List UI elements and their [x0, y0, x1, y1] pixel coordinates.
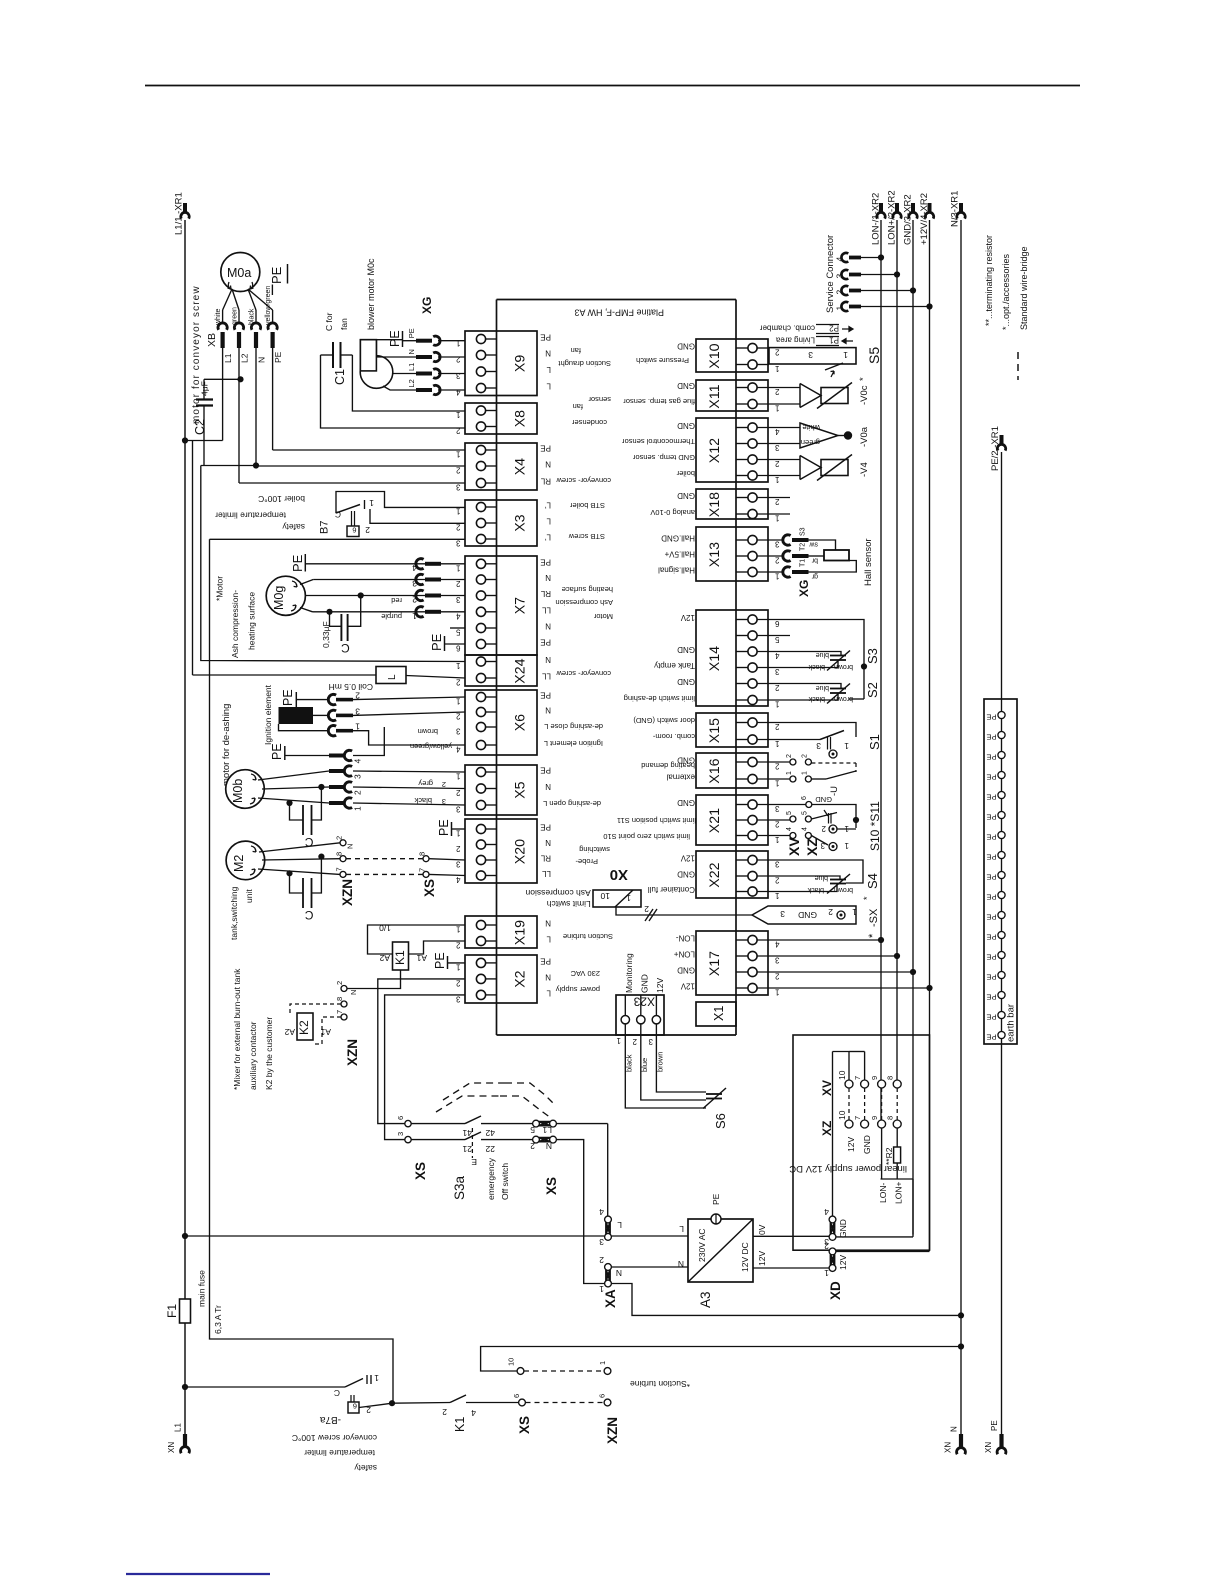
svg-text:0V: 0V	[757, 1224, 767, 1235]
svg-text:black: black	[807, 886, 824, 893]
svg-text:blue: blue	[816, 651, 829, 658]
svg-text:T2: T2	[800, 543, 807, 551]
wire X2.N to XS-6	[378, 979, 465, 1124]
svg-text:3: 3	[599, 1237, 604, 1247]
svg-text:XN: XN	[984, 1442, 993, 1453]
svg-text:4: 4	[775, 940, 780, 949]
svg-text:1: 1	[786, 771, 793, 775]
svg-text:Thermocontrol sensor: Thermocontrol sensor	[622, 437, 695, 446]
svg-text:XB: XB	[206, 333, 218, 347]
connector -SX* arrow	[752, 906, 880, 938]
svg-text:GND: GND	[677, 798, 695, 807]
svg-text:1: 1	[775, 891, 780, 900]
connector X11	[623, 380, 780, 413]
svg-text:brown: brown	[834, 695, 853, 702]
svg-text:10: 10	[600, 891, 610, 901]
svg-text:1: 1	[775, 475, 780, 484]
svg-text:4: 4	[456, 875, 461, 884]
svg-text:GND: GND	[838, 1219, 848, 1238]
svg-text:XZN: XZN	[605, 1417, 620, 1444]
junction B7a output	[389, 1400, 395, 1406]
svg-text:10: 10	[507, 1358, 516, 1366]
svg-text:XN: XN	[944, 1442, 953, 1453]
svg-text:S1: S1	[867, 734, 882, 750]
svg-text:*Motor: *Motor	[215, 576, 225, 601]
svg-text:PE: PE	[986, 733, 996, 742]
svg-text:PE: PE	[986, 753, 996, 762]
svg-text:S6: S6	[713, 1113, 728, 1129]
svg-text:Suction draught: Suction draught	[558, 359, 611, 368]
svg-text:2: 2	[442, 780, 446, 789]
limit switches S10 S11 cluster (XV/XZ)	[757, 795, 882, 856]
terminal N/3-XR1 and N line	[950, 191, 966, 1434]
svg-text:2: 2	[456, 466, 461, 475]
svg-text:12V: 12V	[757, 1251, 767, 1266]
wire X3.3 STB screw	[210, 538, 466, 540]
svg-text:PE: PE	[540, 956, 551, 965]
plug XZ row (dashed mating)	[820, 1088, 901, 1154]
svg-text:230 VAC: 230 VAC	[570, 969, 600, 978]
svg-text:door switch (GND): door switch (GND)	[633, 716, 695, 725]
svg-text:boiler 100°C: boiler 100°C	[258, 494, 305, 504]
plug XZN contacts (mixer K2)	[335, 981, 360, 1066]
svg-text:1: 1	[456, 962, 461, 971]
svg-text:Platine FMP-F, HW A3: Platine FMP-F, HW A3	[574, 308, 664, 318]
svg-text:X10: X10	[707, 343, 723, 368]
svg-text:2: 2	[775, 497, 780, 506]
svg-text:1: 1	[775, 514, 780, 523]
linear power supply 12V block	[789, 1035, 929, 1250]
plug XZN / XS contacts (M2 to X20)	[258, 836, 465, 906]
svg-text:blower motor M0c: blower motor M0c	[366, 258, 376, 330]
svg-text:black: black	[624, 1054, 633, 1072]
svg-text:M0g: M0g	[272, 586, 286, 610]
svg-text:PE: PE	[986, 933, 996, 942]
svg-text:5: 5	[530, 1125, 535, 1135]
svg-text:black: black	[808, 663, 825, 670]
PE symbol at X20.1	[437, 819, 465, 836]
svg-text:4: 4	[471, 1408, 476, 1418]
switch K1 contact (bottom)	[392, 1395, 519, 1432]
svg-text:black: black	[414, 796, 432, 805]
svg-text:S4: S4	[865, 873, 880, 889]
svg-text:2: 2	[456, 678, 461, 687]
svg-text:sensor: sensor	[588, 395, 611, 404]
svg-text:3: 3	[456, 595, 461, 604]
svg-text:7: 7	[335, 867, 344, 871]
svg-text:X19: X19	[513, 920, 529, 945]
svg-text:2: 2	[802, 754, 809, 758]
svg-text:4: 4	[412, 563, 417, 573]
dashed optional suction-fan bypass	[436, 1083, 556, 1118]
svg-text:PE: PE	[273, 351, 283, 363]
capacitor C at M2	[290, 857, 322, 922]
svg-text:*: *	[867, 933, 879, 938]
PE symbol at X7.1	[290, 554, 465, 572]
svg-text:Limit switch: Limit switch	[547, 899, 591, 909]
svg-text:2: 2	[775, 459, 780, 468]
svg-text:-U: -U	[829, 786, 840, 796]
wires M0g to X7 plug	[300, 580, 465, 612]
svg-text:Ash compression: Ash compression	[555, 598, 613, 607]
svg-text:N: N	[545, 919, 551, 928]
svg-text:230V AC: 230V AC	[697, 1228, 707, 1262]
svg-text:L1: L1	[174, 1423, 183, 1432]
svg-text:L: L	[387, 674, 398, 680]
svg-text:1: 1	[353, 806, 363, 811]
svg-text:Living area: Living area	[775, 336, 815, 345]
svg-text:1: 1	[456, 925, 461, 934]
svg-text:XS: XS	[544, 1177, 559, 1195]
svg-text:7: 7	[853, 1076, 862, 1080]
svg-text:1: 1	[775, 739, 780, 748]
svg-text:42: 42	[485, 1128, 495, 1138]
svg-text:LON+: LON+	[674, 950, 695, 959]
svg-text:1: 1	[775, 404, 780, 413]
connector X7	[456, 556, 614, 655]
motor M0b (de-ashing)	[221, 704, 264, 809]
bus GND vertical	[912, 220, 914, 1235]
svg-text:X3: X3	[513, 514, 529, 531]
junction M2 cap taps	[318, 854, 324, 860]
terminal L1/1-XR1	[174, 192, 190, 235]
sensor S6 with wires black/blue/brown	[624, 1024, 728, 1129]
svg-text:8: 8	[418, 852, 427, 856]
svg-text:yellow/green: yellow/green	[410, 742, 452, 751]
terminal XN PE (bottom)	[984, 1420, 1006, 1454]
svg-text:A1: A1	[416, 953, 427, 963]
svg-text:X11: X11	[707, 384, 723, 408]
links P1 living area / P2 comb chamber	[760, 324, 853, 346]
svg-text:3: 3	[412, 579, 417, 589]
switch S3a emergency off	[396, 1116, 533, 1200]
contacts external heating demand (-U)	[757, 754, 856, 796]
svg-text:4: 4	[775, 427, 780, 436]
svg-text:limit switch de-ashing: limit switch de-ashing	[624, 694, 695, 703]
junction C2-L2	[237, 376, 243, 382]
svg-text:S3: S3	[800, 527, 807, 536]
svg-text:E: E	[471, 1157, 477, 1167]
svg-text:N: N	[545, 622, 551, 631]
svg-text:heating surface: heating surface	[562, 585, 613, 594]
svg-text:L: L	[546, 365, 551, 374]
svg-text:Hall sensor: Hall sensor	[863, 538, 874, 586]
svg-text:*Suction turbine: *Suction turbine	[630, 1379, 690, 1389]
svg-text:9: 9	[870, 1116, 879, 1120]
svg-text:RL: RL	[540, 589, 551, 598]
svg-text:2: 2	[775, 876, 780, 885]
PE symbol at M0b	[270, 743, 329, 760]
svg-text:sw: sw	[809, 541, 819, 548]
svg-text:PE: PE	[986, 1033, 996, 1042]
svg-text:PE: PE	[986, 793, 996, 802]
svg-text:2: 2	[632, 1037, 637, 1046]
svg-text:X8: X8	[513, 410, 529, 427]
svg-text:9: 9	[870, 1076, 879, 1080]
svg-text:1: 1	[456, 829, 461, 838]
svg-text:X17: X17	[707, 951, 723, 976]
wires X17 to LON bus with junctions	[757, 937, 933, 991]
svg-text:X12: X12	[707, 438, 723, 463]
svg-text:2: 2	[456, 426, 461, 435]
svg-text:12V: 12V	[846, 1137, 856, 1152]
junction M0b cap taps	[318, 784, 324, 790]
svg-text:3: 3	[775, 956, 780, 965]
svg-text:PE: PE	[986, 913, 996, 922]
svg-text:PE: PE	[540, 333, 551, 342]
svg-text:temperature limiter: temperature limiter	[304, 1448, 375, 1458]
svg-text:brown: brown	[418, 727, 438, 736]
svg-text:PE: PE	[388, 330, 402, 347]
svg-text:PE: PE	[986, 853, 996, 862]
svg-text:A3: A3	[698, 1291, 713, 1308]
svg-text:6: 6	[353, 1402, 357, 1411]
connector X14	[624, 610, 780, 709]
svg-text:N: N	[545, 655, 551, 664]
svg-text:GND temp. sensor: GND temp. sensor	[632, 453, 695, 462]
svg-text:6,3 A Tr: 6,3 A Tr	[213, 1305, 223, 1334]
svg-text:RL: RL	[540, 854, 551, 863]
junction L1-feed	[182, 1233, 188, 1239]
sensor S4 container full	[757, 860, 880, 900]
svg-text:de-ashing close L: de-ashing close L	[544, 722, 603, 731]
svg-text:XN: XN	[167, 1442, 176, 1453]
svg-text:2: 2	[456, 978, 461, 987]
svg-text:brown: brown	[834, 886, 853, 893]
svg-text:1: 1	[456, 563, 461, 572]
svg-text:N/3-XR1: N/3-XR1	[950, 191, 961, 227]
svg-text:PE: PE	[437, 819, 451, 836]
svg-text:K1: K1	[393, 950, 407, 965]
svg-text:3: 3	[780, 909, 785, 919]
svg-text:12V DC: 12V DC	[740, 1242, 750, 1272]
svg-text:2: 2	[821, 824, 826, 833]
connector X13	[658, 527, 780, 581]
svg-text:XD: XD	[828, 1281, 843, 1300]
svg-text:PE: PE	[986, 993, 996, 1002]
svg-text:3: 3	[456, 727, 461, 736]
bus LON+ vertical	[896, 220, 898, 1084]
svg-text:X6: X6	[513, 714, 529, 731]
svg-text:S3a: S3a	[452, 1175, 467, 1200]
blower motor M0c	[360, 258, 393, 388]
svg-text:Standard wire-bridge: Standard wire-bridge	[1019, 246, 1029, 330]
svg-text:L: L	[546, 517, 551, 526]
svg-text:2: 2	[775, 683, 780, 692]
terminal XN L1 (bottom)	[167, 1423, 189, 1454]
svg-text:L': L'	[545, 501, 551, 510]
svg-text:N: N	[546, 1141, 552, 1151]
label safety temperature limiter boiler 100C	[215, 494, 305, 532]
svg-text:4: 4	[599, 1207, 604, 1217]
svg-text:heating demand: heating demand	[641, 761, 695, 770]
svg-text:3: 3	[456, 860, 461, 869]
svg-text:de-ashing open L: de-ashing open L	[543, 799, 601, 808]
connector X12	[622, 418, 780, 484]
svg-text:2: 2	[786, 754, 793, 758]
svg-text:X21: X21	[707, 808, 723, 833]
svg-text:XG: XG	[797, 580, 811, 597]
svg-text:PE: PE	[429, 633, 444, 651]
connector X4	[456, 443, 612, 492]
svg-text:1: 1	[775, 779, 780, 788]
svg-text:analog 0-10V: analog 0-10V	[650, 508, 695, 517]
plug XD pairs	[824, 1207, 848, 1300]
svg-text:7: 7	[418, 868, 427, 872]
svg-text:N: N	[950, 1426, 959, 1432]
wire main L to XA and A3	[185, 1235, 688, 1237]
svg-text:brown: brown	[655, 1052, 664, 1072]
earth bar	[984, 699, 1017, 1044]
connector X24	[456, 655, 612, 687]
svg-text:10: 10	[837, 1070, 847, 1080]
svg-text:1: 1	[775, 700, 780, 709]
svg-text:S3: S3	[865, 648, 880, 664]
svg-text:external: external	[666, 773, 695, 782]
svg-text:limit switch zero point S10: limit switch zero point S10	[603, 832, 690, 841]
connector X3	[456, 500, 606, 548]
svg-text:X0: X0	[610, 866, 628, 883]
wire L2 to X4 pin3	[239, 482, 465, 484]
svg-text:-B7a: -B7a	[319, 1414, 341, 1425]
svg-text:PE: PE	[986, 833, 996, 842]
plug contacts at X7 (rows 1-4)	[381, 559, 441, 621]
svg-text:6: 6	[801, 796, 808, 800]
svg-text:XS: XS	[422, 879, 437, 897]
svg-text:PE/2,-XR1: PE/2,-XR1	[990, 426, 1001, 471]
svg-text:**...terminating resistor: **...terminating resistor	[984, 235, 994, 326]
limit switch X0 (ash compression)	[525, 866, 752, 921]
svg-text:green: green	[801, 438, 820, 447]
svg-text:LON-/1-XR2: LON-/1-XR2	[871, 193, 882, 245]
svg-text:X1: X1	[712, 1006, 726, 1021]
svg-text:*: *	[862, 896, 872, 900]
svg-text:safety: safety	[354, 1463, 377, 1473]
svg-text:S2: S2	[865, 682, 880, 698]
thermostat B7a safety limiter conveyor screw	[185, 1373, 392, 1473]
svg-text:2: 2	[775, 762, 780, 771]
svg-text:4: 4	[456, 611, 461, 620]
svg-text:condenser: condenser	[571, 418, 607, 427]
svg-text:purple: purple	[381, 612, 402, 621]
svg-text:Monitoring: Monitoring	[624, 953, 634, 993]
connector X2	[456, 955, 601, 1003]
sensor -V0c* flue gas	[757, 377, 870, 409]
svg-text:grey: grey	[418, 779, 433, 788]
wire PE to X4 pin1	[273, 449, 465, 451]
PE stub at X7 pin5/6	[429, 628, 465, 651]
svg-text:PE: PE	[270, 743, 284, 760]
sensors S3 S2 (tank)	[757, 620, 880, 704]
svg-text:C: C	[335, 510, 341, 520]
svg-text:5: 5	[786, 811, 793, 815]
svg-text:2: 2	[456, 579, 461, 588]
svg-text:LON+/2-XR2: LON+/2-XR2	[887, 190, 898, 245]
svg-text:41: 41	[462, 1128, 472, 1138]
svg-text:fan: fan	[571, 346, 581, 355]
svg-text:1: 1	[369, 498, 374, 508]
svg-text:GND/3-XR2: GND/3-XR2	[903, 194, 914, 245]
plug XB with wires white/green/black/yellow-green	[206, 286, 283, 483]
svg-text:conveyor- screw: conveyor- screw	[556, 476, 611, 485]
svg-text:X24: X24	[513, 658, 529, 683]
connector X1	[696, 1002, 736, 1026]
svg-text:1: 1	[844, 824, 849, 833]
svg-text:4: 4	[456, 745, 461, 754]
svg-text:white: white	[802, 423, 821, 432]
plug contacts at M0b/X5 (rows 4-1)	[258, 727, 465, 811]
svg-text:Hall.5V+: Hall.5V+	[664, 550, 695, 559]
sensor -V0a thermocouple	[757, 423, 870, 448]
label mixer for external burner	[232, 968, 274, 1090]
svg-text:yellow/green: yellow/green	[265, 286, 272, 325]
svg-text:GND: GND	[677, 421, 695, 430]
svg-text:S5: S5	[866, 347, 882, 364]
motor M0a (conveyor screw)	[191, 253, 260, 425]
svg-text:A2: A2	[379, 953, 390, 963]
svg-text:conveyor screw 100°C: conveyor screw 100°C	[292, 1433, 377, 1443]
svg-text:PE: PE	[407, 328, 416, 338]
svg-text:8: 8	[335, 997, 344, 1001]
svg-text:Tank empty: Tank empty	[654, 661, 695, 670]
svg-text:black: black	[808, 695, 825, 702]
plug XS pairs to XA	[530, 1120, 608, 1283]
svg-text:Off switch: Off switch	[500, 1163, 510, 1200]
transformer A3 230V/12V	[678, 1193, 767, 1308]
svg-text:N: N	[545, 573, 551, 582]
svg-text:3: 3	[456, 371, 461, 380]
connector X21	[603, 795, 779, 845]
svg-text:X13: X13	[707, 542, 723, 567]
svg-text:XG: XG	[420, 297, 434, 314]
fuse F1	[165, 1270, 223, 1334]
svg-text:limit switch position S11: limit switch position S11	[617, 816, 696, 825]
svg-text:6: 6	[598, 1394, 607, 1398]
sensor -V4 boiler temp	[757, 455, 870, 481]
wire GND rail to XD	[832, 1052, 834, 1216]
svg-text:8: 8	[335, 852, 344, 856]
svg-text:*Mixer for external burn-out t: *Mixer for external burn-out tank	[232, 968, 242, 1090]
wire A3 0V to XD/GND bus	[753, 1235, 913, 1238]
svg-text:N: N	[346, 844, 355, 849]
svg-text:PE: PE	[986, 953, 996, 962]
svg-text:PE: PE	[711, 1193, 721, 1205]
svg-text:heating surface: heating surface	[247, 592, 257, 650]
svg-text:1: 1	[852, 907, 857, 917]
svg-text:-V4: -V4	[859, 462, 870, 477]
svg-text:*: *	[858, 377, 869, 381]
svg-text:6: 6	[396, 1116, 405, 1120]
svg-text:4: 4	[802, 827, 809, 831]
svg-text:3: 3	[775, 667, 780, 676]
PE label at M0a	[269, 264, 288, 295]
connector X20	[456, 819, 611, 884]
svg-text:N: N	[616, 1268, 622, 1278]
svg-text:GND: GND	[677, 966, 695, 975]
bus LON- vertical	[880, 220, 882, 1124]
svg-text:L1: L1	[542, 1125, 552, 1135]
svg-text:8: 8	[886, 1076, 895, 1080]
svg-text:emergency: emergency	[486, 1157, 496, 1200]
connector X5	[456, 765, 602, 815]
svg-text:PE: PE	[540, 557, 551, 566]
svg-text:L: L	[546, 935, 551, 944]
svg-text:2: 2	[644, 904, 649, 914]
stubs X18	[757, 498, 790, 515]
svg-text:M0b: M0b	[231, 779, 245, 803]
svg-text:Coil 0.5 mH: Coil 0.5 mH	[329, 682, 373, 692]
svg-text:GND: GND	[677, 870, 695, 879]
